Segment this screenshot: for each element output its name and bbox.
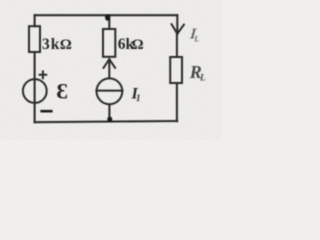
svg-text:Ω: Ω <box>60 37 72 53</box>
arrowhead of load current IL (down) <box>172 24 184 34</box>
minus sign of source E <box>40 110 52 113</box>
plus sign of source E <box>40 71 47 78</box>
voltage source E circle <box>23 79 47 103</box>
svg-text:L: L <box>199 73 206 83</box>
svg-text:k: k <box>51 36 60 53</box>
svg-text:L: L <box>193 34 199 43</box>
svg-text:Ω: Ω <box>132 37 144 53</box>
svg-text:3: 3 <box>42 36 50 53</box>
wire right branch upper (top corner down) <box>176 15 178 34</box>
wire top horizontal <box>35 14 178 16</box>
wire current source to bottom wire <box>108 105 110 122</box>
svg-text:1: 1 <box>136 93 141 103</box>
wire RL to bottom wire <box>176 83 178 121</box>
wire middle branch upper (top wire to R2) <box>108 15 110 29</box>
wire bottom horizontal <box>35 121 178 122</box>
junction dot top middle node <box>105 14 110 20</box>
junction dot bottom middle node <box>107 117 112 123</box>
wire left branch upper (top wire to R1) <box>34 15 36 26</box>
wire R1 to source E (passes through circle) <box>34 52 36 122</box>
svg-text:Ɛ: Ɛ <box>56 78 68 103</box>
current source horizontal bar <box>96 90 122 92</box>
resistor R1 3kΩ body <box>29 26 40 52</box>
resistor R2 6kΩ body <box>103 29 115 57</box>
current source I circle <box>97 78 123 104</box>
resistor RL body <box>170 57 182 83</box>
wire arrow to RL <box>176 34 178 57</box>
current source arrow (up) <box>104 59 116 78</box>
